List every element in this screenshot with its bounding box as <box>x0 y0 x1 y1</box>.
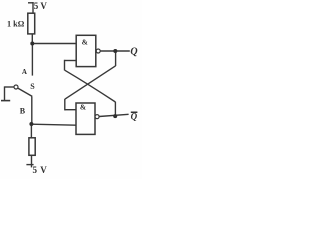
svg-text:A: A <box>22 68 27 76</box>
svg-text:S: S <box>30 82 35 91</box>
svg-text:B: B <box>20 107 26 116</box>
switch S pole circle <box>14 85 18 89</box>
junction node Qbar <box>113 114 117 118</box>
common terminal bar <box>1 100 10 102</box>
wire node A row to U1 input pin 1 <box>32 43 76 45</box>
wire junction to switch contact A <box>31 44 33 76</box>
wire node B row to U2 input pin 2 <box>31 124 76 125</box>
overbar of Qbar <box>131 112 138 113</box>
wire R2 to 5V bottom <box>31 155 33 167</box>
switch S lever <box>18 88 33 96</box>
svg-text:5 V: 5 V <box>34 1 48 11</box>
svg-text:Q: Q <box>131 112 138 122</box>
wire U1 output to terminal Q <box>100 50 130 52</box>
junction node B <box>29 122 33 126</box>
wire R1 to node A junction <box>31 34 33 44</box>
wire to node Q junction <box>115 51 117 66</box>
inverter bubble U2 output <box>95 115 99 119</box>
resistor R1 <box>28 13 35 34</box>
power terminal +5V top tick <box>28 2 34 4</box>
svg-text:&: & <box>80 103 86 112</box>
wire U2 input pin 1 stub <box>65 109 76 111</box>
wire cross-coupling diagonal U2 output to U1 input <box>65 70 116 102</box>
wire switch pole to common <box>5 86 15 88</box>
wire U2 output to terminal Qbar <box>99 114 129 116</box>
junction node Q <box>113 49 117 53</box>
NAND gate U1 body <box>76 35 96 66</box>
wire U1 pin2 vertical drop <box>64 60 66 71</box>
wire U1 input pin 2 stub <box>65 60 77 62</box>
svg-text:&: & <box>82 38 88 47</box>
NAND gate U2 body <box>76 103 95 134</box>
svg-text:1 kΩ: 1 kΩ <box>7 19 25 28</box>
junction node A <box>30 42 34 46</box>
svg-text:5 V: 5 V <box>33 165 48 175</box>
resistor R2 <box>29 138 35 156</box>
power terminal +5V bottom tick <box>26 164 33 166</box>
wire U2 pin1 vertical rise <box>64 99 66 110</box>
wire to node Qbar junction <box>114 102 116 116</box>
wire 5V to R1 <box>32 2 34 13</box>
wire node B junction to R2 <box>30 124 32 138</box>
svg-text:Q: Q <box>130 46 137 57</box>
wire switch contact B down to node B junction <box>31 96 33 124</box>
inverter bubble U1 output <box>96 49 100 53</box>
wire cross-coupling diagonal U1 output to U2 input <box>65 66 116 99</box>
wire common down <box>4 86 6 100</box>
